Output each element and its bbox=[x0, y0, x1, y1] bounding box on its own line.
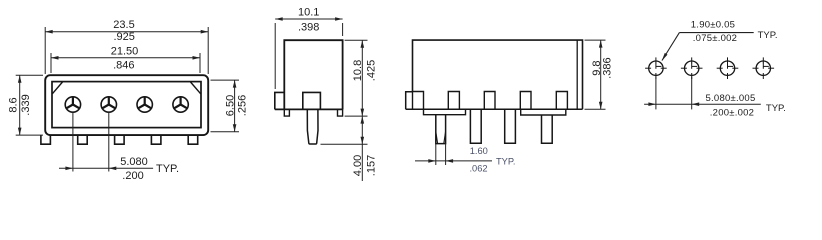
svg-text:10.8: 10.8 bbox=[352, 60, 364, 81]
back body outline bbox=[413, 40, 583, 109]
svg-text:.398: .398 bbox=[298, 22, 319, 34]
svg-text:TYP.: TYP. bbox=[766, 103, 786, 114]
solder pin 1 (back) bbox=[436, 115, 446, 144]
solder pin 2 (back) bbox=[470, 109, 481, 143]
cavity corner chamfer left bbox=[52, 82, 62, 94]
dim 10.8/.425 height bbox=[345, 40, 378, 116]
cavity cutout 3 (back) bbox=[484, 92, 495, 110]
svg-text:1.60: 1.60 bbox=[470, 146, 488, 156]
svg-text:.925: .925 bbox=[113, 31, 134, 43]
view 2: connector side view bbox=[275, 7, 378, 181]
view 3: connector back view bbox=[406, 40, 614, 173]
body cavity opening bbox=[52, 82, 201, 128]
drill hole symbol 1 bbox=[645, 57, 667, 79]
solder pin 3 (back) bbox=[505, 109, 516, 143]
mounting tab 1 (front) bbox=[41, 135, 51, 144]
mounting tab 3 (front) bbox=[115, 135, 125, 144]
view 1: connector front view bbox=[7, 19, 248, 182]
svg-text:TYP.: TYP. bbox=[156, 163, 179, 175]
svg-text:TYP.: TYP. bbox=[496, 157, 515, 167]
view 4: recommended pcb hole layout bbox=[644, 19, 786, 118]
dim 9.8/.386 back height bbox=[585, 40, 614, 109]
drill hole symbol 3 bbox=[717, 57, 739, 79]
dim 10.1/.398 overall depth bbox=[275, 7, 342, 89]
svg-text:.075±.002: .075±.002 bbox=[693, 33, 737, 44]
cavity cutout 4 (back) bbox=[520, 92, 531, 110]
bottom ledge line bbox=[275, 108, 343, 110]
socket contact 1 bbox=[65, 97, 80, 112]
cavity cutout 2 (back) bbox=[448, 92, 459, 110]
socket contact 3 bbox=[137, 97, 152, 112]
dim 8.6/.339 body height bbox=[7, 75, 43, 135]
svg-text:10.1: 10.1 bbox=[298, 7, 319, 19]
svg-text:5.080: 5.080 bbox=[120, 156, 148, 168]
dim 4.00/.157 pin length bbox=[321, 116, 378, 181]
svg-text:.062: .062 bbox=[469, 163, 487, 173]
svg-text:8.6: 8.6 bbox=[7, 97, 19, 112]
left mounting tab (side) bbox=[275, 92, 285, 109]
svg-text:23.5: 23.5 bbox=[113, 19, 134, 31]
side body outline bbox=[284, 40, 342, 109]
svg-text:.200: .200 bbox=[122, 170, 143, 182]
left mounting tab (back) bbox=[406, 92, 413, 110]
mounting tab 2 (front) bbox=[78, 135, 88, 144]
cavity cutout 1 (back) bbox=[413, 92, 424, 110]
left standoff ledge bbox=[424, 109, 466, 114]
left standoff notch bbox=[284, 109, 289, 116]
dim 6.50/.256 rib height bbox=[211, 80, 249, 132]
svg-text:1.90±0.05: 1.90±0.05 bbox=[691, 19, 735, 30]
svg-text:.425: .425 bbox=[366, 60, 378, 81]
dim 1.60/.062 pin width bbox=[415, 144, 515, 174]
right standoff ledge bbox=[521, 109, 566, 115]
mounting tab 5 (front) bbox=[188, 135, 198, 144]
pin base block bbox=[303, 92, 321, 109]
connector body outline (front) bbox=[45, 75, 208, 135]
svg-text:4.00: 4.00 bbox=[352, 155, 364, 176]
svg-text:.256: .256 bbox=[236, 95, 248, 116]
dim 23.5/.925 overall width bbox=[45, 19, 208, 74]
dim 21.50/.846 body width bbox=[51, 45, 200, 73]
svg-text:.386: .386 bbox=[601, 57, 613, 78]
solder pin (side) bbox=[307, 109, 318, 144]
svg-text:.200±.002: .200±.002 bbox=[710, 108, 754, 119]
svg-text:TYP.: TYP. bbox=[758, 30, 778, 41]
dim 5.080/.200 contact pitch bbox=[59, 112, 179, 182]
svg-text:21.50: 21.50 bbox=[111, 45, 139, 57]
svg-text:.846: .846 bbox=[113, 59, 134, 71]
right standoff notch bbox=[338, 109, 343, 116]
cavity corner chamfer right bbox=[191, 82, 201, 94]
socket contact 2 bbox=[101, 97, 116, 112]
pin 1 tip taper bbox=[436, 132, 446, 144]
svg-text:5.080±.005: 5.080±.005 bbox=[706, 93, 756, 104]
drill hole symbol 2 bbox=[681, 57, 703, 79]
svg-text:.157: .157 bbox=[366, 155, 378, 176]
cavity cutout 5 (back) bbox=[556, 92, 567, 110]
svg-text:6.50: 6.50 bbox=[224, 95, 236, 116]
mounting tab 4 (front) bbox=[151, 135, 161, 144]
inner wall line right bbox=[576, 40, 578, 109]
socket contact 4 bbox=[173, 97, 188, 112]
svg-text:.339: .339 bbox=[20, 94, 32, 115]
leader for hole diameter bbox=[662, 33, 679, 61]
dim 5.080/.200 hole pitch bbox=[644, 77, 786, 119]
back bottom edge bbox=[406, 108, 583, 110]
solder pin 4 (back) bbox=[542, 115, 553, 143]
drill hole symbol 4 bbox=[753, 57, 775, 79]
